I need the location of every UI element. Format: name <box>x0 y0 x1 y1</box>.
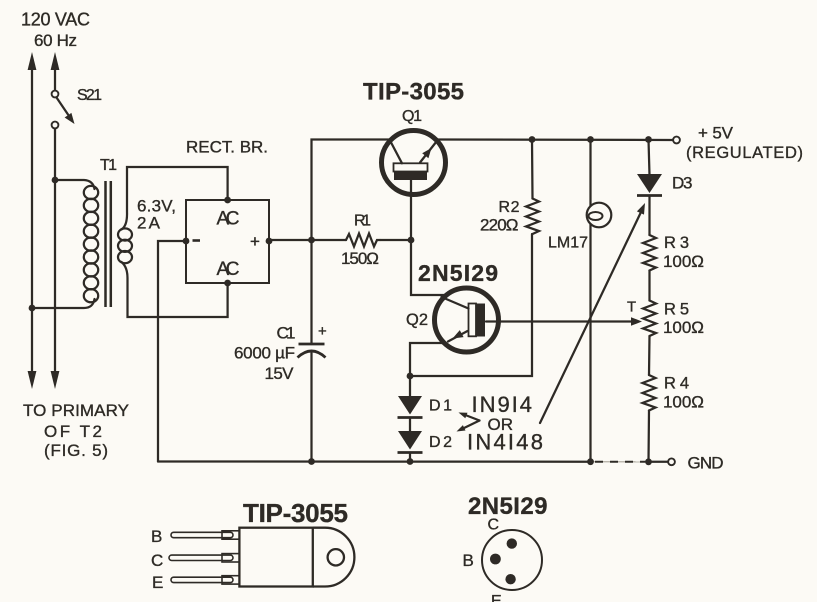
node junction on left line <box>29 305 36 312</box>
svg-text:220Ω: 220Ω <box>480 216 519 235</box>
terminal +5V regulated <box>673 124 803 163</box>
svg-text:GND: GND <box>688 454 724 473</box>
terminal GND <box>668 454 723 473</box>
svg-text:Q1: Q1 <box>402 108 422 125</box>
potentiometer R5 100ohm with wiper T <box>627 299 704 338</box>
wire R5 to R4 <box>648 336 651 375</box>
svg-text:100Ω: 100Ω <box>663 252 704 271</box>
svg-text:+: + <box>250 232 260 251</box>
svg-text:C1: C1 <box>277 324 296 343</box>
svg-text:AC: AC <box>217 259 240 280</box>
wire top rail from Q1 emitter to +5V terminal <box>436 138 673 141</box>
svg-text:+: + <box>318 323 327 340</box>
node R1 / Q1 base / Q2 collector junction <box>408 237 415 244</box>
rectifier bridge box <box>186 200 269 283</box>
svg-text:T: T <box>627 299 636 316</box>
svg-text:B: B <box>151 527 162 546</box>
node bridge minus terminal <box>183 238 190 245</box>
svg-text:(REGULATED): (REGULATED) <box>686 144 803 162</box>
resistor R2 220ohm <box>480 140 539 235</box>
transformer T1 primary winding <box>32 180 98 308</box>
diode D2 <box>398 418 453 462</box>
node plus junction at C1 branch <box>308 237 315 244</box>
node Q2 emitter / R2 / D1 junction <box>407 373 414 380</box>
svg-text:D1: D1 <box>429 398 452 415</box>
pointer arrow to D3 <box>540 203 645 423</box>
wire AC line left <box>28 52 37 389</box>
node C1 at ground rail <box>308 458 315 465</box>
node junction on switched line <box>52 177 59 184</box>
diode D1 <box>398 376 453 418</box>
wire bridge minus to ground rail <box>158 241 186 462</box>
svg-text:2N5I29: 2N5I29 <box>418 260 498 286</box>
svg-text:R1: R1 <box>354 213 371 230</box>
switch S21 <box>52 87 102 128</box>
wire Q2 base to R5 wiper <box>486 317 642 326</box>
svg-text:B: B <box>463 551 474 570</box>
svg-text:6000 µF: 6000 µF <box>234 344 295 363</box>
svg-text:C: C <box>488 517 500 534</box>
node bridge AC top terminal <box>224 197 231 204</box>
svg-text:Q2: Q2 <box>406 311 428 329</box>
svg-text:100Ω: 100Ω <box>663 393 704 412</box>
node bridge plus terminal <box>266 238 273 245</box>
svg-text:2N5I29: 2N5I29 <box>468 493 548 520</box>
svg-text:TIP-3055: TIP-3055 <box>363 79 464 106</box>
label IN914 OR IN4148 <box>467 392 543 455</box>
svg-text:E: E <box>152 573 163 592</box>
wire Q1 base down to R1 junction <box>410 180 412 241</box>
svg-text:RECT. BR.: RECT. BR. <box>186 138 268 157</box>
node R2 top on rail <box>529 136 536 143</box>
wire junction to R2 bottom <box>410 234 532 376</box>
package lead E <box>152 573 239 592</box>
resistor R4 100ohm <box>643 375 705 462</box>
wire AC line right (switched) <box>51 52 60 389</box>
wire bridge plus to R1 <box>269 239 346 241</box>
svg-text:S21: S21 <box>77 87 102 104</box>
svg-text:R2: R2 <box>499 199 520 216</box>
node LM17 top on rail <box>587 136 594 143</box>
package lead B <box>151 527 239 546</box>
lamp LM17 <box>548 140 611 462</box>
transformer T1 core <box>106 181 111 307</box>
svg-text:15V: 15V <box>265 364 295 383</box>
node D2 at ground rail <box>407 458 414 465</box>
node D3 branch top on rail <box>645 136 652 143</box>
diode D3 <box>637 140 693 196</box>
svg-text:TO PRIMARY: TO PRIMARY <box>23 401 129 420</box>
svg-text:LM17: LM17 <box>548 235 588 252</box>
transformer T1 secondary winding <box>118 167 228 317</box>
node LM17 bottom on ground rail <box>587 458 594 465</box>
wire R3 to R5 <box>648 271 650 301</box>
resistor R3 100ohm <box>643 196 704 272</box>
resistor R1 150ohm <box>341 213 411 269</box>
label TO PRIMARY OF T2 (FIG. 5) <box>23 401 129 460</box>
svg-text:IN4I48: IN4I48 <box>467 430 543 455</box>
svg-text:C: C <box>151 551 163 570</box>
svg-text:TIP-3055: TIP-3055 <box>243 498 348 528</box>
wire plus junction up to collector rail <box>312 140 391 241</box>
svg-text:150Ω: 150Ω <box>341 249 379 268</box>
svg-text:60 Hz: 60 Hz <box>34 31 77 50</box>
package TIP-3055 body <box>239 528 354 587</box>
svg-text:AC: AC <box>217 209 240 230</box>
wire Q2 emitter down to diode junction <box>410 343 444 376</box>
svg-text:E: E <box>491 593 502 602</box>
svg-text:T1: T1 <box>100 157 117 174</box>
svg-text:D2: D2 <box>429 434 452 451</box>
label 120 VAC 60 Hz <box>21 10 90 51</box>
label 6.3V 2A <box>137 197 176 233</box>
svg-text:2A: 2A <box>137 214 161 233</box>
svg-text:D3: D3 <box>672 174 693 193</box>
node bridge AC bottom terminal <box>224 280 231 287</box>
capacitor C1 6000uF 15V <box>234 240 327 462</box>
wire junction down to Q2 collector <box>411 240 446 295</box>
svg-text:IN9I4: IN9I4 <box>472 392 533 417</box>
package 2N5129 outline <box>463 517 543 602</box>
svg-text:(FIG. 5): (FIG. 5) <box>44 441 108 460</box>
transistor Q2 <box>435 288 499 352</box>
svg-text:120 VAC: 120 VAC <box>21 10 90 30</box>
svg-text:100Ω: 100Ω <box>663 318 704 337</box>
node R4 bottom on ground rail <box>645 458 652 465</box>
pointer arrows to D1 and D2 <box>457 413 480 432</box>
transistor Q1 <box>382 131 446 195</box>
package lead C <box>151 551 239 570</box>
svg-text:+ 5V: + 5V <box>698 124 734 143</box>
svg-text:OF T2: OF T2 <box>44 422 102 441</box>
wire ground rail <box>158 460 668 463</box>
